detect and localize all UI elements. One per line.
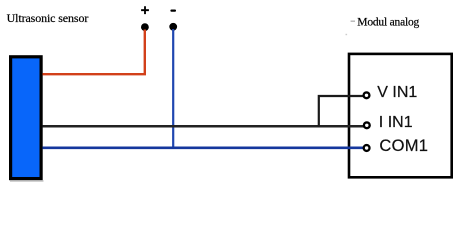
- node - terminal dot: [169, 23, 177, 31]
- wire black branch: junction up to V IN1: [319, 96, 364, 126]
- stray faint dot below dash: [346, 34, 348, 35]
- pin circle COM1: [364, 145, 370, 151]
- wire red: sensor to + terminal: [43, 30, 145, 75]
- wire blue: - terminal down to common: [172, 29, 174, 148]
- svg-text:I IN1: I IN1: [379, 114, 413, 131]
- svg-text:COM1: COM1: [379, 137, 428, 155]
- ultrasonic sensor body: [11, 57, 41, 179]
- soft shadow under sensor body: [10, 180, 44, 182]
- module analog box: [349, 54, 452, 177]
- svg-text:V IN1: V IN1: [377, 84, 417, 101]
- svg-text:+: +: [141, 2, 150, 19]
- pin circle V IN1: [364, 92, 370, 98]
- minus label -: [170, 10, 176, 12]
- stray faint dash left of "Modul analog": [351, 21, 355, 22]
- svg-text:Modul analog: Modul analog: [357, 16, 419, 28]
- wire blue: sensor common to COM1: [43, 147, 364, 150]
- svg-text:Ultrasonic sensor: Ultrasonic sensor: [7, 11, 89, 25]
- wire black: sensor signal to I IN1: [43, 125, 364, 128]
- pin circle I IN1: [364, 122, 370, 128]
- node + terminal dot: [141, 23, 149, 31]
